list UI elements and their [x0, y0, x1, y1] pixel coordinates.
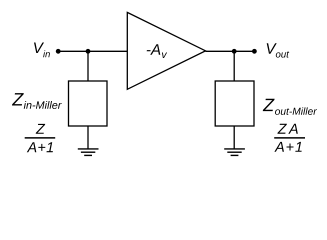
fraction denominator A+1 (left): [27, 142, 53, 152]
input terminal dot: [56, 49, 61, 54]
impedance box Zout-Miller: [215, 81, 254, 126]
wire: output node down to Zout-Miller box: [233, 51, 235, 81]
fraction denominator A+1 (right): [274, 142, 301, 152]
ground (right): [224, 149, 245, 156]
node Vin label: [34, 43, 50, 58]
label -Av inside amplifier: [147, 44, 167, 58]
wire: Zout-Miller box to ground: [233, 126, 235, 149]
junction dot at output node: [232, 49, 237, 54]
wire: amplifier output to Vout: [206, 50, 255, 52]
label Zout-Miller: [263, 99, 317, 115]
output terminal dot: [252, 49, 257, 54]
node Vout label: [267, 43, 289, 57]
junction dot at input node: [86, 49, 91, 54]
wire: Zin-Miller box to ground: [87, 126, 89, 149]
impedance box Zin-Miller: [69, 81, 108, 126]
fraction bar (right): [274, 137, 305, 139]
fraction bar (left): [25, 137, 56, 139]
wire: input node down to Zin-Miller box: [87, 51, 89, 81]
fraction numerator Z A (right): [277, 124, 297, 134]
op-amp / amplifier triangle: [127, 12, 205, 89]
fraction numerator Z (left): [36, 124, 45, 134]
label Zin-Miller: [12, 93, 62, 109]
ground (left): [78, 149, 99, 156]
wire: Vin to amplifier input: [58, 50, 128, 52]
